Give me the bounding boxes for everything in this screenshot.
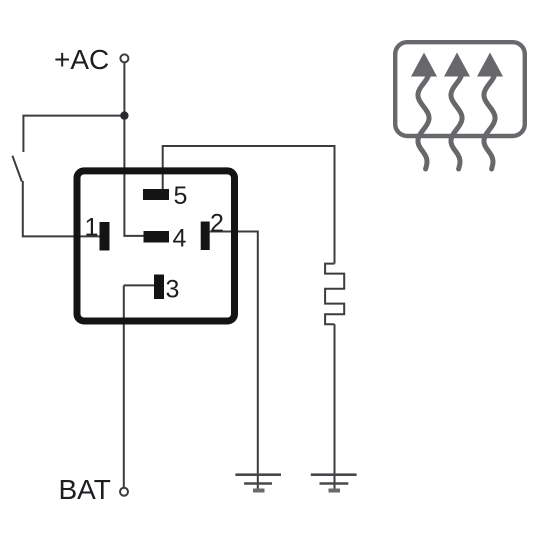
svg-text:BAT: BAT xyxy=(59,474,111,505)
svg-text:+AC: +AC xyxy=(54,44,109,75)
svg-text:5: 5 xyxy=(174,182,188,210)
svg-text:3: 3 xyxy=(166,276,180,304)
svg-text:2: 2 xyxy=(210,210,224,238)
svg-text:4: 4 xyxy=(173,225,187,253)
svg-text:1: 1 xyxy=(85,214,99,242)
